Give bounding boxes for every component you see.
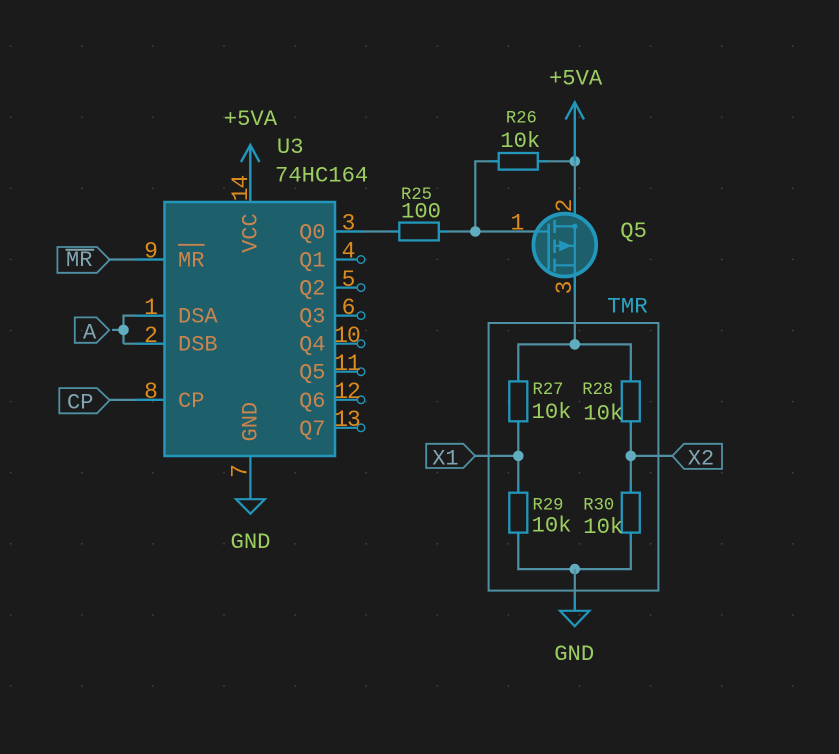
svg-text:10k: 10k [583, 515, 623, 540]
svg-text:CP: CP [67, 390, 93, 415]
svg-text:74HC164: 74HC164 [275, 164, 368, 189]
wire X1 label to left branch [475, 455, 518, 457]
svg-text:GND: GND [554, 642, 594, 667]
resistor R30 [583, 493, 640, 540]
U3 pin 12 (Q6) unconnected stub [299, 379, 365, 414]
wire junction to U3 pin 2 DSB [124, 343, 165, 345]
svg-text:Q4: Q4 [299, 333, 325, 358]
svg-text:Q1: Q1 [299, 249, 325, 274]
U3 pin 10 (Q4) unconnected stub [299, 323, 365, 358]
wire +5VA line down to Q5 drain [574, 161, 576, 226]
input label CP [59, 388, 109, 415]
U3 pin 3 (Q0) [299, 211, 355, 246]
svg-text:Q7: Q7 [299, 417, 325, 442]
R27 pin stubs [517, 373, 519, 430]
wire right branch to X2 label [631, 455, 673, 457]
Q5 source pin stub [574, 275, 576, 294]
transistor Q5 (N-MOSFET) [533, 214, 596, 277]
svg-text:13: 13 [334, 407, 360, 433]
svg-text:2: 2 [144, 323, 157, 349]
svg-text:DSA: DSA [178, 305, 218, 330]
svg-text:100: 100 [401, 200, 441, 225]
U3 pin 9 (MR input) [144, 239, 204, 274]
svg-text:X2: X2 [688, 447, 714, 472]
svg-text:VCC: VCC [238, 213, 263, 253]
svg-text:Q5: Q5 [299, 361, 325, 386]
svg-text:8: 8 [144, 379, 157, 405]
svg-text:DSB: DSB [178, 333, 218, 358]
wire Q5 source down to bridge top [574, 276, 576, 344]
R25 pin stubs [391, 230, 448, 232]
wire R26 right side to +5VA line [538, 160, 575, 162]
junction on +5VA line at R26 [570, 156, 581, 167]
sheet box TMR [489, 294, 659, 591]
svg-text:1: 1 [144, 295, 157, 321]
U3 pin 2 (DSB) [144, 323, 217, 358]
wire CP label to U3 pin 8 [109, 399, 165, 401]
wire R28 bottom to R30 top (right mid branch) [630, 421, 632, 492]
resistor R25 [399, 186, 441, 240]
svg-text:10k: 10k [500, 129, 540, 154]
ground GND below U3 [231, 499, 271, 555]
wire U3 Q0 to R25 [335, 230, 399, 232]
wire R27 bottom to R29 top (left mid branch) [517, 421, 519, 492]
resistor R26 [499, 110, 541, 170]
svg-text:R27: R27 [533, 381, 564, 400]
U3 pin 8 stub [136, 399, 165, 401]
junction bridge top [570, 339, 581, 350]
wire R25 to Q5 gate [439, 230, 535, 232]
wire MR label to U3 pin 9 [108, 258, 165, 260]
IC U3 body [165, 202, 336, 456]
ground GND below TMR [554, 611, 594, 667]
svg-text:GND: GND [238, 402, 263, 442]
resistor R28 [582, 381, 640, 427]
wire A label to junction [112, 329, 124, 331]
input label A [75, 317, 109, 345]
Q5 drain pin stub [574, 198, 576, 216]
svg-text:Q0: Q0 [299, 221, 325, 246]
junction bridge bottom [570, 564, 581, 575]
U3 pin 8 (CP) [144, 379, 204, 414]
R26 pin stubs [490, 160, 547, 162]
junction at A label tee [118, 325, 129, 336]
svg-text:X1: X1 [432, 446, 458, 471]
wire bridge bottom horizontal [518, 533, 631, 570]
svg-text:1: 1 [511, 211, 524, 237]
output label X2 [672, 444, 722, 472]
R28 pin stubs [630, 373, 632, 430]
U3 pin 2 stub [136, 343, 165, 345]
U3 pin 11 (Q5 out) unconnected stub [299, 351, 365, 386]
junction R25/R26/gate node [470, 226, 481, 237]
power +5VA symbol above Q5 [549, 67, 603, 162]
junction X1 node [513, 451, 524, 462]
U3 pin 1 (DSA) [144, 295, 218, 330]
svg-text:10: 10 [334, 323, 360, 349]
svg-text:+5VA: +5VA [549, 67, 603, 92]
svg-text:TMR: TMR [607, 294, 648, 320]
U3 pin 13 (Q7) unconnected stub [299, 407, 365, 442]
U3 pin 5 (Q2) unconnected stub [299, 267, 365, 302]
R30 pin stubs [630, 484, 632, 541]
svg-text:GND: GND [231, 530, 271, 555]
resistor R27 [509, 381, 571, 425]
svg-text:14: 14 [228, 176, 254, 202]
svg-text:R30: R30 [583, 497, 614, 516]
power +5VA symbol above U3 [224, 107, 278, 202]
output label X1 [426, 444, 475, 472]
resistor R29 [509, 493, 571, 539]
GND symbol pin below TMR [574, 598, 576, 611]
svg-text:4: 4 [342, 239, 355, 265]
wire junction up to R26 left side [475, 161, 498, 231]
wire U3 pin 7 to GND [249, 456, 251, 499]
svg-text:10k: 10k [532, 514, 572, 539]
U3 pin 1 stub [136, 315, 165, 317]
U3 pin 4 (Q1) unconnected stub [299, 239, 365, 274]
svg-text:U3: U3 [277, 135, 304, 160]
svg-text:10k: 10k [532, 400, 572, 425]
junction X2 node [626, 451, 637, 462]
svg-text:11: 11 [334, 351, 360, 377]
wire bridge top horizontal [518, 344, 631, 381]
svg-text:R26: R26 [506, 110, 537, 129]
svg-text:12: 12 [334, 379, 360, 405]
svg-text:3: 3 [342, 211, 355, 237]
svg-text:CP: CP [178, 389, 204, 414]
svg-text:Q2: Q2 [299, 277, 325, 302]
U3 pin 6 (Q3) unconnected stub [299, 295, 365, 330]
svg-text:Q6: Q6 [299, 389, 325, 414]
svg-text:10k: 10k [583, 402, 623, 427]
R29 pin stubs [517, 484, 519, 541]
wire bridge bottom to GND [574, 569, 576, 611]
svg-text:R28: R28 [582, 381, 613, 400]
svg-text:5: 5 [342, 267, 355, 293]
U3 pin 14 (VCC) [228, 176, 263, 253]
svg-text:+5VA: +5VA [224, 107, 278, 132]
svg-text:MR: MR [66, 248, 92, 273]
svg-text:Q3: Q3 [299, 305, 325, 330]
input label MR [57, 247, 109, 273]
svg-text:Q5: Q5 [620, 219, 647, 244]
wire junction to U3 pin 1 DSA [124, 316, 165, 344]
svg-text:6: 6 [342, 295, 355, 321]
svg-text:9: 9 [144, 239, 157, 265]
svg-text:MR: MR [178, 249, 204, 274]
U3 pin 3 stub [335, 230, 364, 232]
svg-text:A: A [83, 321, 97, 346]
U3 pin 9 stub [136, 258, 165, 260]
U3 pin 7 (GND) [227, 402, 263, 478]
